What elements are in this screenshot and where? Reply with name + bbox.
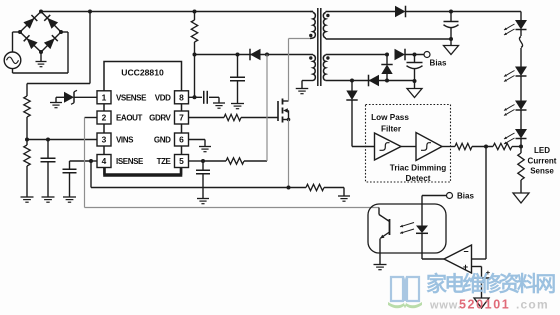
bridge diode D2 (right-top edge) — [44, 15, 58, 29]
diode D bias rectifier — [395, 49, 406, 61]
ground bias (triangle) — [407, 81, 422, 98]
svg-text:1: 1 — [102, 92, 107, 102]
op-amp U1 UCC28810 body — [104, 62, 182, 175]
node output cap — [449, 10, 453, 14]
wire ISENSE to shunt — [91, 161, 289, 188]
pin 8 VDD — [155, 91, 189, 104]
ground opto emitter — [374, 265, 387, 270]
ground TZE cap — [197, 199, 209, 204]
block Low Pass Filter / Triac Dimming Detect (dotted box) — [366, 105, 451, 184]
node VDD storage cap — [236, 53, 240, 57]
node ISENSE — [89, 159, 93, 163]
node bias winding phase dot — [309, 56, 312, 59]
wire detect output — [442, 146, 455, 148]
svg-text:家电维修资料网: 家电维修资料网 — [426, 272, 555, 296]
svg-text:VINS: VINS — [116, 136, 134, 145]
transistor Q1 MOSFET — [278, 99, 289, 123]
wire gate — [241, 117, 278, 119]
wire inverting input from sense tap — [472, 147, 487, 260]
transformer T1 core — [318, 8, 321, 86]
resistor R detect out — [455, 143, 472, 149]
node bridge bottom — [39, 50, 43, 54]
node TZE — [201, 159, 205, 163]
bridge rectifier frame — [20, 12, 61, 53]
LED D1 — [504, 20, 527, 36]
ground reference (triangle) — [474, 298, 489, 308]
svg-text:VSENSE: VSENSE — [116, 93, 147, 102]
terminal Bias (top) — [424, 52, 447, 68]
ground under bridge — [36, 52, 47, 67]
node bias cap bottom — [413, 79, 417, 83]
bridge diode D1 (left-top edge) — [23, 15, 37, 29]
bridge diode D3 (bottom-left edge) — [24, 35, 38, 49]
svg-text:+: + — [463, 262, 468, 272]
transformer T1 bias winding — [302, 55, 315, 81]
transformer T1 aux secondary winding — [323, 55, 325, 81]
ground zener — [50, 103, 62, 108]
wire output rail — [406, 11, 522, 13]
svg-text:Sense: Sense — [530, 167, 554, 176]
watermark book logo — [388, 277, 422, 308]
node primary phase dot — [309, 34, 312, 37]
svg-text:6: 6 — [179, 135, 184, 145]
node top rail / divider tap — [88, 10, 92, 14]
LED D2 — [504, 67, 527, 101]
ground VINS cap — [42, 197, 55, 202]
ground VDD storage — [231, 104, 244, 109]
LED opto photodiode — [416, 196, 428, 260]
node bias cap — [413, 53, 417, 57]
wire pin 6 GND — [189, 140, 206, 147]
svg-text:Current: Current — [528, 157, 557, 166]
wire VINS (pin 3) — [27, 139, 97, 141]
wire drain to winding (gray) — [289, 39, 311, 102]
capacitor C VDD bypass — [195, 91, 220, 104]
wire pin 8 VDD — [189, 96, 195, 98]
wire top rail (rectified bus) — [41, 11, 313, 13]
resistor R shunt — [306, 184, 324, 190]
pin 2 EAOUT — [97, 111, 143, 124]
ground ISENSE cap — [63, 197, 76, 202]
pin 4 ISENSE — [97, 155, 144, 168]
wire aux winding top — [326, 54, 387, 56]
wire pin 7 GDRV — [189, 117, 225, 119]
node aux bottom left — [350, 79, 354, 83]
wire bus to divider — [27, 12, 90, 97]
capacitor C VINS filter — [41, 140, 56, 198]
resistor R LED current sense — [518, 147, 524, 194]
wire pin 4 ISENSE — [91, 160, 97, 162]
wire bias node — [405, 54, 424, 56]
svg-text:LED: LED — [534, 146, 550, 155]
ground output (triangle) — [444, 39, 459, 55]
svg-text:8: 8 — [179, 92, 184, 102]
node VDD feed — [193, 53, 197, 57]
terminal Bias (lower) — [422, 192, 474, 201]
pin 7 GDRV — [149, 111, 188, 124]
svg-text:UCC28810: UCC28810 — [121, 68, 164, 78]
optocoupler U2 body — [368, 204, 446, 253]
wire shunt to ground — [289, 188, 344, 197]
wire to LED string bottom — [512, 146, 521, 148]
svg-text:520101: 520101 — [459, 298, 510, 312]
node top rail / startup resistor — [193, 10, 197, 14]
transformer T1 primary winding — [310, 12, 315, 39]
watermark url — [429, 298, 549, 312]
wire output rail corner down — [520, 12, 522, 21]
svg-text:3: 3 — [102, 135, 107, 145]
wire filter stage link — [401, 146, 416, 148]
svg-text:2: 2 — [102, 113, 107, 123]
resistor R divider lower — [24, 145, 30, 166]
op-amp U3 comparator — [444, 245, 472, 273]
node bridge left — [18, 30, 22, 34]
wire VDD node line — [195, 54, 314, 56]
resistor R TZE — [203, 158, 244, 164]
node aux top / clamp — [385, 53, 389, 57]
resistor R gate — [224, 114, 241, 120]
resistor R sense divider — [493, 143, 512, 149]
diode D clamp vertical — [381, 55, 392, 82]
resistor R divider upper — [24, 96, 30, 117]
ground bias winding — [296, 81, 309, 94]
wire secondary return — [326, 38, 451, 40]
node VINS filter cap — [46, 138, 50, 142]
node shunt top — [287, 186, 291, 190]
node secondary phase dot — [326, 14, 329, 17]
node bridge right — [59, 30, 63, 34]
battery V reference — [474, 268, 491, 298]
svg-text:VDD: VDD — [155, 93, 171, 102]
svg-text:www.: www. — [429, 300, 462, 312]
AC source V1 — [4, 52, 21, 69]
pin 3 VINS — [97, 133, 134, 146]
capacitor C bias (polarized) — [407, 55, 423, 82]
wire comparator output — [422, 258, 444, 260]
opto coupling arrows — [400, 223, 414, 234]
svg-text:−: − — [463, 247, 468, 257]
capacitor C TZE — [196, 161, 210, 199]
svg-text:Bias: Bias — [457, 192, 474, 201]
capacitor C output (polarized) — [444, 12, 459, 40]
wire AC top to bridge left node — [13, 32, 21, 52]
node op-amp sense tap — [484, 145, 488, 149]
transformer T1 secondary winding — [323, 12, 325, 40]
svg-text:Filter: Filter — [381, 125, 402, 134]
svg-text:Triac Dimming: Triac Dimming — [390, 164, 446, 173]
LED D4 — [504, 129, 527, 147]
wire pin 2 EAOUT to opto (gray) — [85, 118, 380, 208]
node VDD pin junction — [193, 95, 197, 99]
wire aux winding bottom — [326, 80, 415, 82]
svg-text:ISENSE: ISENSE — [116, 157, 144, 166]
wire pin 5 TZE — [189, 160, 204, 162]
svg-text:.com: .com — [516, 298, 549, 312]
diode D VDD from bias winding — [250, 49, 261, 61]
svg-text:5: 5 — [179, 156, 184, 166]
wire secondary top — [326, 11, 395, 13]
label LED Current Sense — [528, 146, 557, 176]
capacitor C ISENSE filter — [63, 161, 92, 197]
wire TZE to bias winding (gray) — [244, 55, 267, 162]
pin 6 GND — [154, 133, 189, 146]
pin 5 TZE — [157, 155, 189, 168]
node LED string bottom — [519, 145, 523, 149]
wire detect input — [352, 146, 375, 148]
wire LED1-LED2 — [520, 48, 522, 67]
watermark text — [426, 272, 555, 296]
node MOSFET source-body — [287, 118, 291, 122]
svg-text:Detect: Detect — [405, 174, 430, 183]
svg-text:TZE: TZE — [157, 157, 172, 166]
svg-text:EAOUT: EAOUT — [116, 114, 143, 123]
svg-text:GND: GND — [154, 136, 171, 145]
wire divider mid — [26, 117, 28, 145]
node aux bottom mid — [385, 79, 389, 83]
op-amp A2 triac dimming detect — [416, 133, 442, 161]
svg-text:7: 7 — [179, 113, 184, 123]
ground VDD bypass — [213, 103, 225, 108]
diode D output rectifier — [395, 6, 406, 18]
ground LED sense (triangle) — [513, 193, 529, 203]
diode D to triac detect — [346, 81, 357, 147]
op-amp A1 low pass filter — [375, 133, 402, 160]
svg-text:4: 4 — [102, 156, 107, 166]
wire break squiggle — [519, 37, 522, 48]
bridge diode D4 (bottom-right edge) — [44, 35, 58, 49]
node bridge top — [39, 10, 43, 14]
transistor opto phototransistor — [379, 208, 390, 265]
node secondary return — [449, 37, 453, 41]
svg-text:Low Pass: Low Pass — [371, 113, 409, 122]
wire non-inverting input — [472, 267, 482, 279]
wire AC bottom loop to bridge right node — [13, 32, 69, 73]
ground pin 6 — [199, 147, 211, 152]
zener diode at VSENSE — [56, 90, 97, 104]
pin 1 VSENSE — [97, 91, 147, 104]
node VINS divider tap — [25, 138, 29, 142]
svg-text:GDRV: GDRV — [149, 114, 171, 123]
ground shunt — [338, 196, 350, 201]
svg-text:Bias: Bias — [430, 59, 447, 68]
wire VDD node down to pin 8 — [194, 55, 196, 98]
ground divider — [21, 197, 34, 202]
wire to sense divider — [472, 146, 493, 148]
wire divider lower to ground — [26, 166, 28, 197]
LED D3 — [504, 101, 527, 130]
capacitor C VDD storage — [230, 55, 245, 104]
wire ISENSE loop under IC (thick) — [105, 168, 182, 176]
diode D aux return — [369, 75, 380, 87]
resistor R startup — [191, 12, 197, 55]
node aux secondary phase dot — [326, 56, 329, 59]
node TZE sense tap — [265, 53, 269, 57]
wire source down (gray) — [288, 120, 290, 188]
